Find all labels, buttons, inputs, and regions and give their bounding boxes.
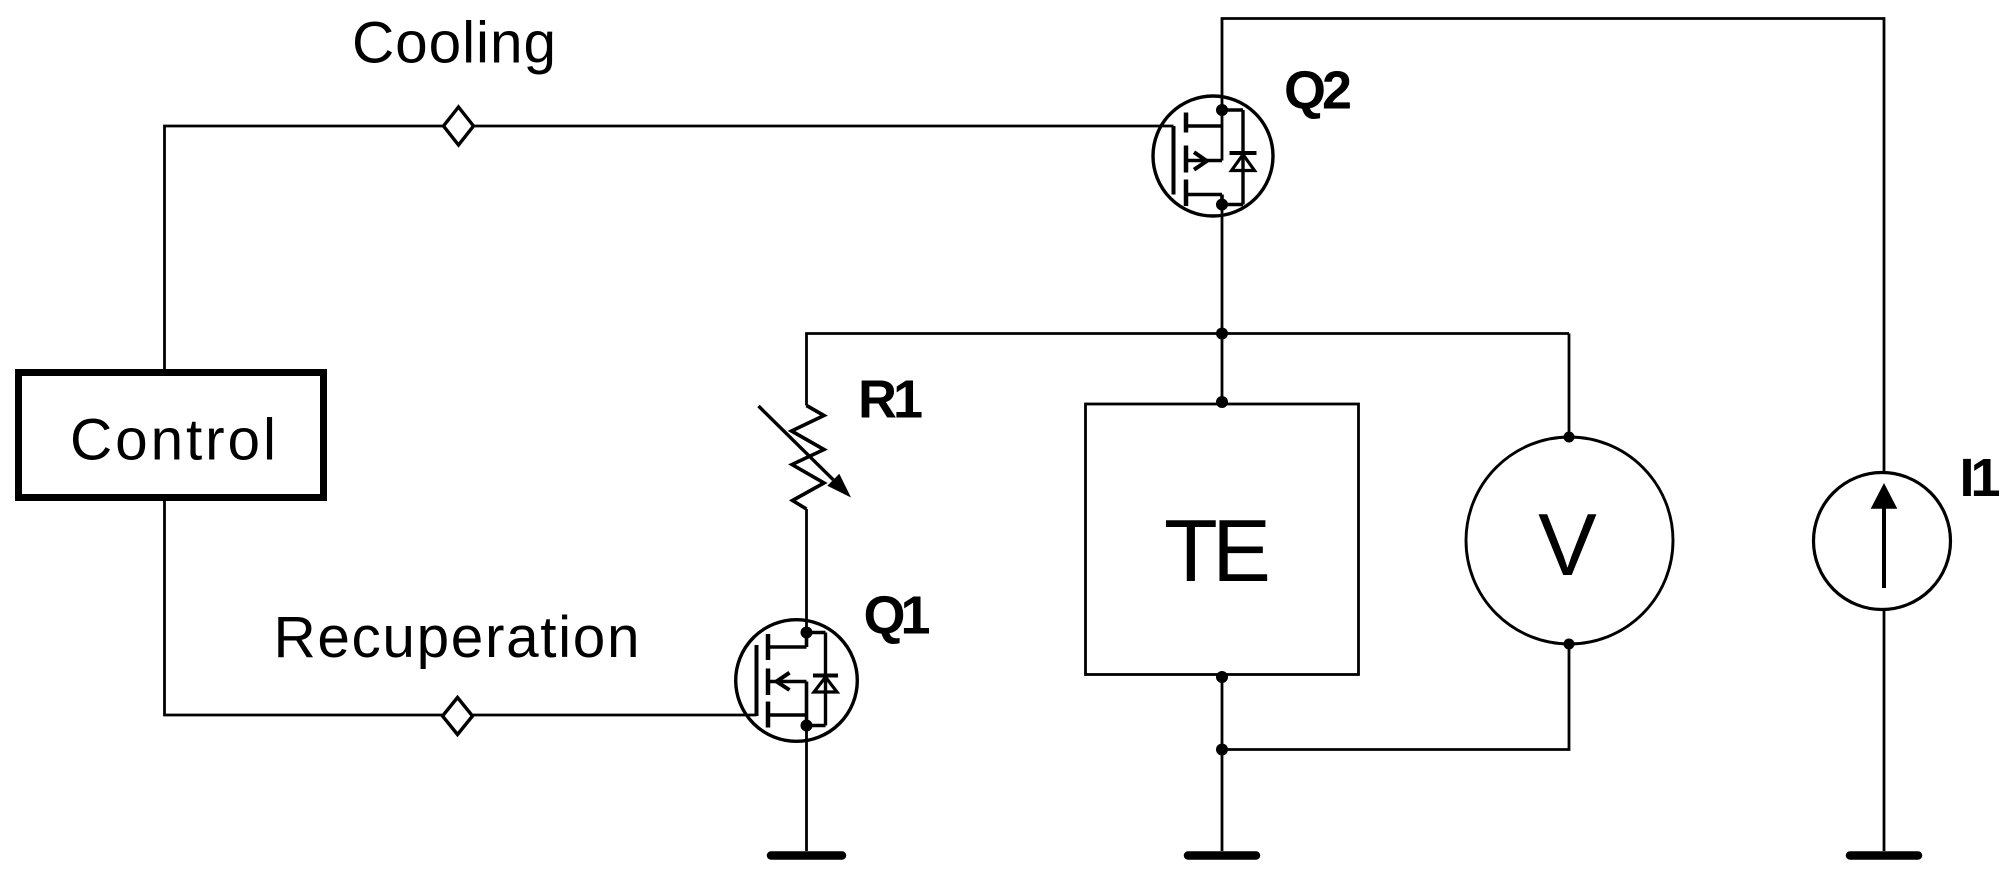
node Q2 drain dot bbox=[1216, 104, 1228, 116]
resistor R1 arrow bbox=[759, 406, 834, 480]
diamond on Cooling wire bbox=[444, 107, 474, 145]
node V top dot bbox=[1564, 432, 1575, 443]
resistor R1 (variable) zigzag bbox=[792, 406, 825, 510]
svg-text:R1: R1 bbox=[858, 370, 922, 430]
svg-text:Q1: Q1 bbox=[864, 586, 930, 646]
node TE bottom dot bbox=[1216, 671, 1228, 683]
wire R1 bottom to Q1 drain bbox=[805, 509, 808, 647]
current source I1 bbox=[1814, 473, 1951, 610]
diamond on Recuperation wire bbox=[443, 698, 473, 735]
ground (Q1) bbox=[771, 851, 842, 860]
transistor Q1 bbox=[736, 620, 858, 742]
svg-text:Cooling: Cooling bbox=[352, 11, 556, 76]
wire Cooling net: Control to Q2 gate bbox=[165, 126, 1174, 369]
svg-text:I1: I1 bbox=[1960, 448, 2000, 508]
Control box bbox=[19, 373, 324, 498]
svg-text:Control: Control bbox=[70, 408, 276, 473]
wire Q2 source to TE top bbox=[1221, 195, 1224, 403]
TE box bbox=[1086, 404, 1359, 675]
ground (TE) bbox=[1188, 851, 1256, 860]
node Q1 source dot bbox=[801, 720, 813, 732]
wire bottom node B: TE bottom to V bottom bbox=[1222, 644, 1569, 750]
wire I1 bottom to ground bbox=[1883, 610, 1886, 852]
wire Q1 source to ground bbox=[805, 682, 808, 852]
wire TE bottom to ground bbox=[1221, 677, 1224, 851]
svg-text:Q2: Q2 bbox=[1284, 61, 1350, 121]
voltmeter V bbox=[1466, 437, 1673, 644]
ground (I1) bbox=[1850, 851, 1918, 860]
node Q1 drain dot bbox=[801, 627, 813, 639]
wire V top to bus bbox=[1568, 334, 1571, 438]
svg-text:V: V bbox=[1538, 495, 1597, 594]
transistor Q2 bbox=[1153, 96, 1273, 216]
node bus junction dot bbox=[1216, 328, 1228, 340]
wire Recuperation net: Control to Q1 gate bbox=[165, 501, 757, 715]
svg-text:Recuperation: Recuperation bbox=[274, 605, 640, 670]
node Q2 source dot bbox=[1216, 199, 1228, 211]
wire bus node A: R1 top to V top bbox=[807, 334, 1570, 406]
wire top net: Q2 drain to I1 bbox=[1222, 19, 1884, 473]
node TE top dot bbox=[1216, 396, 1228, 408]
node V bottom dot bbox=[1564, 639, 1575, 650]
svg-text:TE: TE bbox=[1164, 501, 1271, 600]
node bottom junction dot bbox=[1216, 744, 1228, 756]
